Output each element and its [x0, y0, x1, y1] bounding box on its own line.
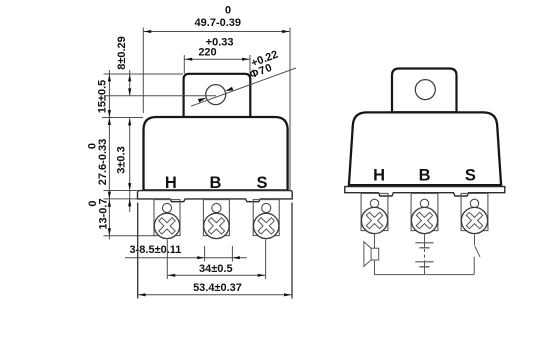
terminal B (right view): terminal block: [411, 193, 438, 230]
wire: B terminal to battery: [424, 234, 426, 243]
terminal S (right view): wire hole: [470, 199, 478, 207]
left view: relay body: [144, 117, 288, 190]
extension line: plate bottom leftwards: [104, 198, 138, 200]
terminal B (right view): phillips cross: [411, 207, 438, 234]
battery link: [424, 243, 426, 248]
extension lines: outer screw centers: [166, 240, 168, 280]
battery plate short (cell 2 -): [419, 266, 429, 268]
svg-text:49.7-0.39: 49.7-0.39: [195, 17, 241, 29]
horn driver (rectangle): [371, 248, 379, 260]
wire: S terminal to switch: [474, 235, 476, 246]
terminal H (left view): terminal block: [154, 200, 180, 236]
terminal S (left view): phillips cross: [253, 213, 280, 240]
leader arrow right: [225, 87, 233, 91]
terminal S (left view): screw head: [254, 213, 279, 238]
terminal B (left view): wire hole: [212, 203, 221, 212]
wire: switch to bottom bus: [473, 257, 475, 275]
leader arrow left: [198, 98, 207, 103]
extension line: body top leftwards: [102, 117, 143, 119]
leader line for hole diameter: [191, 68, 296, 106]
extension lines: plate edges down: [137, 203, 139, 299]
dimension line 34 screw spacing: [167, 274, 265, 276]
terminal S (left view): wire hole: [262, 203, 271, 212]
terminal H (left view): screw head: [154, 213, 179, 238]
svg-text:0: 0: [87, 200, 99, 206]
right view: mounting tab: [392, 69, 457, 113]
extension line: plate top leftwards: [104, 190, 138, 192]
terminal H (left view): phillips cross: [154, 213, 181, 240]
battery plate long (cell 1 +): [415, 242, 433, 244]
extension line: tab left edge up: [183, 55, 185, 74]
terminal B (left view): phillips cross: [203, 213, 230, 240]
dimension line column: 8 / 3: [129, 70, 131, 96]
terminal H (right view): terminal block: [361, 193, 388, 230]
extension line: tab top leftwards: [104, 73, 184, 75]
wire: battery to bottom bus: [424, 267, 426, 275]
left view: base plate flange with feet: [138, 191, 293, 202]
svg-text:8±0.29: 8±0.29: [116, 36, 128, 70]
extension line: body left edge up: [142, 28, 144, 114]
terminal B (right view): wire hole: [420, 199, 428, 207]
extension line: tab right edge up: [249, 55, 251, 74]
svg-text:S: S: [465, 166, 476, 184]
dimension line 53.4 plate width: [138, 294, 292, 296]
dimension line 22 tab width: [184, 58, 250, 60]
terminal H (right view): wire hole: [370, 199, 378, 207]
right view: base plate flange with feet: [345, 187, 505, 196]
battery link 2: [424, 262, 426, 267]
dimension line 49.7 overall width: [143, 31, 290, 33]
svg-text:H: H: [165, 174, 177, 192]
extension line: body right edge down to plate: [289, 28, 291, 190]
horn cone (trapezoid): [364, 242, 371, 267]
svg-text:0: 0: [225, 5, 231, 17]
terminal B (left view): terminal block: [203, 200, 229, 236]
left view: mounting tab: [184, 74, 251, 118]
wire: bottom bus: [375, 274, 475, 276]
terminal B (right view): screw head: [411, 207, 437, 233]
svg-text:53.4±0.37: 53.4±0.37: [193, 282, 242, 294]
terminal S (right view): screw head: [461, 207, 487, 233]
svg-text:3±0.3: 3±0.3: [115, 146, 127, 173]
terminal S (right view): terminal block: [461, 193, 488, 230]
svg-text:S: S: [256, 174, 267, 192]
dimension line column: 15 / 27.6 / 13: [108, 70, 110, 240]
terminal S (left view): terminal block: [253, 200, 279, 236]
left view: tab mounting hole: [206, 85, 226, 105]
battery plate short (cell 1 -): [419, 247, 429, 249]
extension stubs: middle screw dia: [204, 246, 206, 262]
terminal H (right view): phillips cross: [361, 207, 388, 234]
terminal B (left view): screw head: [204, 213, 229, 238]
svg-text:27.6-0.33: 27.6-0.33: [97, 139, 109, 185]
svg-text:34±0.5: 34±0.5: [199, 263, 233, 275]
terminal H (left view): wire hole: [162, 203, 171, 212]
svg-text:B: B: [419, 166, 431, 184]
svg-text:220: 220: [198, 46, 216, 58]
battery dashed middle cells: [424, 249, 426, 262]
dimension line 8.5 hole dia: [125, 257, 247, 259]
right view: tab mounting hole: [415, 80, 435, 100]
svg-text:B: B: [209, 174, 221, 192]
extension line: terminal tip leftwards: [104, 235, 156, 237]
extension line: hole centerline leftwards: [104, 95, 216, 97]
right view: relay body: [349, 112, 501, 185]
battery plate long (cell 2 +): [415, 261, 433, 263]
dimension text phi 7 0 +0.22 (rotated): [244, 49, 283, 82]
svg-text:0: 0: [86, 143, 98, 149]
wire: H terminal to horn: [374, 234, 376, 249]
terminal H (right view): screw head: [361, 207, 387, 233]
terminal S (right view): phillips cross: [461, 207, 488, 234]
svg-text:15±0.5: 15±0.5: [97, 80, 109, 114]
svg-text:13-0.7: 13-0.7: [98, 198, 110, 229]
wire: horn to bottom bus: [374, 260, 376, 275]
svg-text:H: H: [373, 166, 385, 184]
switch blade (open contact): [475, 246, 480, 257]
